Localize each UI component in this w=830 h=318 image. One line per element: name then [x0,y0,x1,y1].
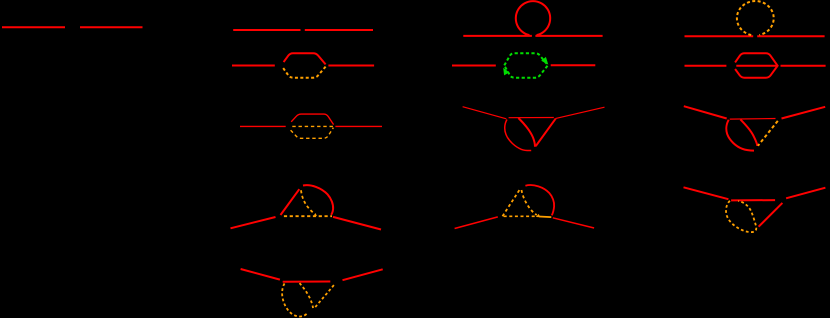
bubble bottom [283,66,326,77]
wire external left [684,187,729,199]
wire external right [556,107,605,118]
loop bulge [303,185,333,215]
bubble top [291,114,333,125]
chord [736,65,777,67]
wire [685,35,754,37]
wire [80,26,143,28]
bubble top [284,53,326,64]
diagram D1: bare propagator pair [2,26,143,28]
diagram D8: two-loop bubble with dashed chord [240,114,382,138]
side dashed [758,121,778,146]
diagram D5: self-energy bubble red/orange [232,53,374,77]
loop oval dashed [726,201,756,232]
side [281,189,300,215]
chord dashed [284,215,332,217]
loop inner [740,119,757,146]
wire external left [684,106,727,118]
side dashed [315,285,334,307]
junction arrow [314,213,317,216]
loop bulge dashed [282,283,307,316]
chord [731,199,775,201]
wire [240,125,286,127]
wire [328,65,374,67]
loop inner dashed [522,190,537,215]
loop [516,1,550,35]
diagram D12: up vertex diagram dashed loop [455,185,594,228]
loop inner dashed [300,283,314,308]
chord [730,118,776,121]
side [536,118,556,146]
diagram D9: vertex-corrected self-energy all red [463,107,605,151]
wire [305,29,373,31]
wire external right [786,188,825,199]
diagram D13: down vertex diagram with dashed oval [684,187,826,232]
chord dashed [504,215,539,217]
wire [757,35,824,37]
wire external right [343,269,383,280]
loop bulge [505,120,531,151]
ghost loop [504,53,548,77]
wire [335,125,382,127]
diagram D11: up vertex diagram [231,185,382,229]
wire [685,65,727,67]
wire [452,65,496,67]
side dashed [503,190,520,217]
diagram D7: bubble with chord all red [685,53,826,77]
diagram D2: dressed propagator line [233,29,373,31]
diagram D14: down vertex diagram all dashed loop [241,269,383,317]
diagram D6: ghost loop bubble green dashed with arrows [452,53,595,77]
wire [2,26,65,28]
wire external left [463,107,507,119]
loop inner [518,118,535,147]
chord solid part [539,216,551,219]
loop [737,1,774,35]
chord [292,125,333,127]
wire external right [782,107,826,119]
wire [781,65,826,67]
wire [551,64,596,66]
bubble [735,53,778,77]
chord [283,281,331,283]
diagram D10: vertex-corrected self-energy with dashed side [684,106,825,150]
wire external left [241,269,280,280]
wire [463,35,532,37]
loop inner dashed [301,190,316,214]
loop bulge [726,120,754,151]
chord [509,117,554,119]
bubble bottom [291,128,334,139]
wire external left [455,217,498,229]
wire [535,35,602,37]
wire [232,65,275,67]
wire [233,29,300,31]
wire external right [553,218,594,228]
wire external right [333,217,381,230]
arrow head bottom-left [503,68,509,76]
loop bulge [525,185,554,215]
wire external left [231,217,276,228]
side [759,203,783,227]
diagram D4: tadpole with dashed orange loop [685,1,825,36]
arrow head top-right [541,57,548,65]
junction arrow [536,214,540,217]
diagram D3: tadpole with red loop [463,1,602,36]
